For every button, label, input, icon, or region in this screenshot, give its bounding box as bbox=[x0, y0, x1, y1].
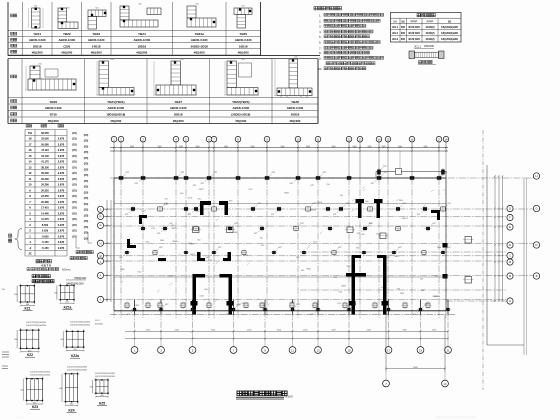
svg-text:(25): (25) bbox=[72, 165, 77, 169]
svg-text:4C20(2): 4C20(2) bbox=[425, 32, 434, 35]
svg-text:YBZ7: YBZ7 bbox=[174, 100, 182, 104]
svg-text:#8@200: #8@200 bbox=[91, 50, 102, 54]
svg-text:B: B bbox=[509, 274, 511, 278]
svg-text:#8@200: #8@200 bbox=[48, 119, 59, 123]
svg-text:KZ3: KZ3 bbox=[249, 189, 252, 191]
svg-text:18: 18 bbox=[29, 137, 32, 141]
svg-text:10C22/C8@100/200: 10C22/C8@100/200 bbox=[67, 370, 88, 372]
svg-text:2.970: 2.970 bbox=[58, 194, 65, 198]
svg-text:KZ2: KZ2 bbox=[278, 247, 281, 249]
svg-text:(25): (25) bbox=[72, 211, 77, 215]
svg-text:KZ2: KZ2 bbox=[435, 276, 438, 278]
svg-text:ABCD-0.030: ABCD-0.030 bbox=[287, 106, 304, 110]
svg-text:1.: 1. bbox=[319, 13, 322, 17]
svg-text:ABCD-0.030: ABCD-0.030 bbox=[235, 38, 252, 42]
svg-text:32.260: 32.260 bbox=[41, 178, 49, 181]
svg-text:(25): (25) bbox=[84, 144, 89, 148]
svg-text:14.440: 14.440 bbox=[41, 212, 49, 215]
svg-text:(25): (25) bbox=[84, 236, 89, 240]
svg-text:5.: 5. bbox=[319, 35, 322, 39]
svg-text:50.080: 50.080 bbox=[41, 143, 49, 146]
svg-text:KZ2: KZ2 bbox=[323, 172, 326, 174]
svg-text:2.970: 2.970 bbox=[58, 154, 65, 158]
svg-text:YBZ1: YBZ1 bbox=[33, 32, 41, 36]
svg-text:35.230: 35.230 bbox=[41, 172, 49, 175]
svg-text:(25): (25) bbox=[84, 179, 89, 183]
svg-text:250x500: 250x500 bbox=[424, 44, 435, 48]
svg-text:YBZ2: YBZ2 bbox=[63, 32, 71, 36]
svg-text:9.: 9. bbox=[319, 57, 322, 61]
svg-text:250: 250 bbox=[171, 225, 174, 227]
svg-text:(25): (25) bbox=[72, 137, 77, 141]
svg-text:10C22/C8@100/200: 10C22/C8@100/200 bbox=[34, 283, 55, 285]
band1 drawings bbox=[29, 4, 253, 30]
svg-text:5700: 5700 bbox=[277, 330, 281, 332]
svg-text:KZ4: KZ4 bbox=[68, 409, 74, 413]
svg-text:2.970: 2.970 bbox=[58, 160, 65, 164]
svg-text:44.140: 44.140 bbox=[41, 155, 49, 158]
svg-text:250: 250 bbox=[165, 198, 168, 200]
svg-text:250: 250 bbox=[260, 237, 263, 239]
shear wall core B bbox=[345, 199, 388, 315]
svg-text:KZ2a: KZ2a bbox=[71, 354, 79, 358]
svg-text:(25): (25) bbox=[84, 133, 89, 137]
svg-text:GBZ1: GBZ1 bbox=[306, 268, 311, 270]
svg-text:1800: 1800 bbox=[400, 293, 404, 295]
svg-text:600: 600 bbox=[301, 270, 304, 272]
svg-text:KZ2: KZ2 bbox=[313, 242, 316, 244]
svg-text:JC: JC bbox=[28, 252, 31, 256]
notes text block bbox=[314, 7, 384, 72]
svg-text:K: K bbox=[100, 274, 102, 278]
svg-text:2.970: 2.970 bbox=[58, 148, 65, 152]
svg-text:MWMH: MWMH bbox=[15, 416, 24, 420]
svg-text:YBZ3: YBZ3 bbox=[92, 32, 100, 36]
svg-text:KZ2: KZ2 bbox=[165, 304, 168, 306]
svg-text:KZ3: KZ3 bbox=[151, 228, 154, 230]
svg-text:KZ2: KZ2 bbox=[448, 203, 451, 205]
svg-text:18D18: 18D18 bbox=[138, 44, 147, 48]
svg-text:20D18: 20D18 bbox=[174, 113, 183, 117]
svg-text:4.: 4. bbox=[319, 30, 322, 34]
svg-text:10C22/C8@100/200: 10C22/C8@100/200 bbox=[26, 325, 47, 327]
svg-text:26.320: 26.320 bbox=[41, 189, 49, 192]
svg-text:KZ2: KZ2 bbox=[398, 247, 401, 249]
svg-text:#8@200: #8@200 bbox=[32, 50, 43, 54]
column micro labels bbox=[119, 166, 451, 317]
svg-text:4C20;3/20: 4C20;3/20 bbox=[408, 38, 420, 41]
drawing title bbox=[236, 391, 293, 399]
svg-text:KZ2: KZ2 bbox=[300, 223, 303, 225]
svg-text:5700: 5700 bbox=[402, 330, 406, 332]
svg-text:20D18: 20D18 bbox=[291, 113, 300, 117]
svg-text:S: S bbox=[100, 208, 102, 212]
svg-text:KZ1: KZ1 bbox=[371, 183, 374, 185]
svg-text:KZ2: KZ2 bbox=[369, 223, 372, 225]
svg-text:KZ2: KZ2 bbox=[432, 223, 435, 225]
svg-text:5700: 5700 bbox=[175, 330, 179, 332]
svg-text:10C22/C8@100/200: 10C22/C8@100/200 bbox=[95, 373, 116, 375]
svg-text:600: 600 bbox=[397, 288, 400, 290]
svg-text:GBZ2a: GBZ2a bbox=[172, 241, 179, 243]
svg-text:GBZ1: GBZ1 bbox=[394, 256, 399, 258]
svg-text:BB: BB bbox=[448, 20, 452, 23]
svg-text:P: P bbox=[100, 224, 102, 228]
JCL beam elevation detail bbox=[409, 44, 444, 65]
svg-text:KZ2: KZ2 bbox=[346, 203, 349, 205]
svg-text:600: 600 bbox=[365, 201, 368, 203]
svg-text:300x600: 300x600 bbox=[95, 324, 104, 326]
svg-text:JCL3: JCL3 bbox=[392, 38, 399, 41]
svg-text:3.: 3. bbox=[319, 25, 322, 29]
svg-text:#8@200: #8@200 bbox=[290, 119, 301, 123]
svg-text:10C22/C8@100/200: 10C22/C8@100/200 bbox=[67, 367, 88, 369]
svg-text:GBZ2a: GBZ2a bbox=[310, 210, 317, 212]
svg-text:1:100: 1:100 bbox=[286, 395, 293, 399]
svg-text:KZ1: KZ1 bbox=[386, 257, 389, 259]
svg-text:5700: 5700 bbox=[367, 330, 371, 332]
svg-text:ABCD-0.030: ABCD-0.030 bbox=[134, 38, 151, 42]
svg-text:ABCD-0.030: ABCD-0.030 bbox=[88, 38, 105, 42]
svg-text:250: 250 bbox=[327, 184, 330, 186]
svg-text:KZ2: KZ2 bbox=[201, 203, 204, 205]
svg-text:KZ1: KZ1 bbox=[254, 233, 257, 235]
svg-text:2.970: 2.970 bbox=[58, 234, 65, 238]
svg-text:2.970: 2.970 bbox=[58, 165, 65, 169]
svg-text:KZ2: KZ2 bbox=[126, 172, 129, 174]
svg-text:KZ2: KZ2 bbox=[376, 233, 379, 235]
svg-text:KZ3: KZ3 bbox=[209, 260, 212, 262]
svg-text:29.290: 29.290 bbox=[41, 184, 49, 187]
svg-text:KZ3: KZ3 bbox=[193, 185, 196, 187]
svg-text:2.970: 2.970 bbox=[58, 240, 65, 244]
svg-text:GBZ2a: GBZ2a bbox=[434, 296, 441, 298]
svg-text:KZ2: KZ2 bbox=[338, 303, 341, 305]
svg-text:#8@200: #8@200 bbox=[235, 119, 246, 123]
svg-text:250: 250 bbox=[420, 278, 423, 280]
svg-text:2.: 2. bbox=[319, 19, 322, 23]
svg-text:4C20(2): 4C20(2) bbox=[425, 38, 434, 41]
svg-text:KZ1: KZ1 bbox=[310, 314, 313, 316]
svg-text:KZ1: KZ1 bbox=[127, 314, 130, 316]
svg-text:600: 600 bbox=[180, 193, 183, 195]
svg-text:KZ1: KZ1 bbox=[296, 257, 299, 259]
svg-text:5700: 5700 bbox=[432, 330, 436, 332]
svg-text:(25): (25) bbox=[72, 160, 77, 164]
svg-text:4C20;3/20: 4C20;3/20 bbox=[408, 26, 420, 29]
svg-text:(25): (25) bbox=[72, 223, 77, 227]
svg-text:KZ1: KZ1 bbox=[119, 257, 122, 259]
svg-text:KZ2: KZ2 bbox=[27, 353, 33, 357]
svg-text:KZ1: KZ1 bbox=[188, 214, 191, 216]
svg-text:8.: 8. bbox=[319, 51, 322, 55]
svg-text:300: 300 bbox=[401, 38, 406, 41]
svg-text:(25): (25) bbox=[72, 142, 77, 146]
svg-text:KZ1: KZ1 bbox=[357, 233, 360, 235]
svg-text:KZ3: KZ3 bbox=[32, 405, 38, 409]
bottom right ramp bbox=[95, 130, 540, 390]
svg-text:YBZ4: YBZ4 bbox=[138, 32, 146, 36]
svg-text:KZ2: KZ2 bbox=[196, 211, 199, 213]
svg-text:#8@200: #8@200 bbox=[238, 50, 249, 54]
svg-text:5.530: 5.530 bbox=[42, 230, 49, 233]
svg-text:E: E bbox=[509, 225, 511, 229]
svg-text:-5.150: -5.150 bbox=[41, 241, 49, 244]
svg-text:23.350: 23.350 bbox=[41, 195, 49, 198]
svg-text:1800: 1800 bbox=[437, 247, 441, 249]
svg-text:12: 12 bbox=[29, 171, 32, 175]
svg-text:10C22/C8@100/200: 10C22/C8@100/200 bbox=[70, 325, 91, 327]
left edge legend marks bbox=[2, 352, 9, 369]
svg-text:10C22/C8@100/200: 10C22/C8@100/200 bbox=[30, 375, 51, 377]
svg-text:KZ2: KZ2 bbox=[238, 304, 241, 306]
svg-text:15: 15 bbox=[29, 154, 32, 158]
svg-text:B: B bbox=[536, 274, 538, 278]
svg-text:4C20(2): 4C20(2) bbox=[425, 26, 434, 29]
svg-text:5700: 5700 bbox=[247, 330, 251, 332]
svg-text:6.: 6. bbox=[319, 41, 322, 45]
svg-text:16D18: 16D18 bbox=[239, 44, 248, 48]
svg-text:10.: 10. bbox=[318, 67, 322, 71]
svg-text:G: G bbox=[509, 207, 511, 211]
svg-text:#8@200: #8@200 bbox=[61, 50, 72, 54]
svg-text:(25): (25) bbox=[84, 139, 89, 143]
svg-text:KZ1: KZ1 bbox=[290, 183, 293, 185]
svg-text:GJZ1: GJZ1 bbox=[188, 197, 193, 199]
svg-text:10C22/C8@100/200: 10C22/C8@100/200 bbox=[34, 280, 55, 282]
svg-text:ABCD-0.030: ABCD-0.030 bbox=[29, 38, 46, 42]
svg-text:16: 16 bbox=[29, 148, 32, 152]
svg-text:(20D22+2D18): (20D22+2D18) bbox=[231, 113, 250, 117]
svg-text:2.970: 2.970 bbox=[58, 171, 65, 175]
svg-text:10C22/C8@100/200: 10C22/C8@100/200 bbox=[66, 280, 87, 282]
svg-text:(25): (25) bbox=[72, 200, 77, 204]
svg-text:20D22+2D18: 20D22+2D18 bbox=[191, 44, 209, 48]
svg-text:(25): (25) bbox=[84, 202, 89, 206]
svg-text:(25): (25) bbox=[84, 219, 89, 223]
svg-text:(25): (25) bbox=[84, 173, 89, 177]
svg-text:YBZ5: YBZ5 bbox=[239, 32, 247, 36]
svg-text:20D18: 20D18 bbox=[33, 44, 42, 48]
svg-text:JCL1: JCL1 bbox=[392, 26, 399, 29]
svg-text:KZ2: KZ2 bbox=[165, 203, 168, 205]
svg-text:GJZ1: GJZ1 bbox=[187, 243, 192, 245]
foundation beam table bbox=[391, 13, 462, 43]
svg-text:2.970: 2.970 bbox=[58, 137, 65, 141]
svg-text:15: 15 bbox=[347, 348, 351, 352]
svg-text:GBZ1: GBZ1 bbox=[199, 189, 204, 191]
svg-text:KZ1: KZ1 bbox=[206, 257, 209, 259]
svg-text:D: D bbox=[535, 243, 537, 247]
svg-text:GBZ1: GBZ1 bbox=[284, 192, 289, 194]
svg-text:1800: 1800 bbox=[160, 240, 164, 242]
svg-text:2.970: 2.970 bbox=[58, 183, 65, 187]
storey height table bbox=[9, 125, 94, 286]
svg-text:2.970: 2.970 bbox=[58, 223, 65, 227]
svg-text:KZ2: KZ2 bbox=[297, 304, 300, 306]
svg-text:10C22/C8@100/200: 10C22/C8@100/200 bbox=[95, 376, 116, 378]
svg-text:5700: 5700 bbox=[146, 330, 150, 332]
svg-text:GBZ1: GBZ1 bbox=[135, 305, 140, 307]
svg-text:ABCD-0.030: ABCD-0.030 bbox=[191, 38, 208, 42]
svg-text:PH: PH bbox=[28, 131, 32, 135]
svg-text:5700: 5700 bbox=[331, 330, 335, 332]
svg-text:(25): (25) bbox=[84, 208, 89, 212]
svg-text:GBZ1: GBZ1 bbox=[168, 276, 173, 278]
svg-text:MMWMMHMWMMWHMMW: MMWMMHMWMMWHMMW bbox=[435, 416, 476, 420]
svg-text:53.050: 53.050 bbox=[41, 138, 49, 141]
svg-text:(25): (25) bbox=[72, 131, 77, 135]
svg-text:YDZ1(YBZ1): YDZ1(YBZ1) bbox=[107, 100, 124, 104]
svg-text:5700: 5700 bbox=[303, 330, 307, 332]
svg-text:(25): (25) bbox=[72, 234, 77, 238]
svg-text:GBZ2a: GBZ2a bbox=[171, 228, 178, 230]
svg-text:(25): (25) bbox=[72, 206, 77, 210]
svg-text:38.200: 38.200 bbox=[41, 166, 49, 169]
svg-text:250: 250 bbox=[340, 195, 343, 197]
svg-text:C8@200(2)x900: C8@200(2)x900 bbox=[441, 39, 459, 41]
svg-text:2.970: 2.970 bbox=[58, 217, 65, 221]
svg-text:C220: C220 bbox=[63, 44, 70, 48]
svg-text:21: 21 bbox=[446, 348, 450, 352]
svg-text:GBZ1: GBZ1 bbox=[120, 269, 125, 271]
svg-text:KZ1: KZ1 bbox=[271, 214, 274, 216]
svg-text:600: 600 bbox=[204, 289, 207, 291]
svg-text:KZ2: KZ2 bbox=[159, 247, 162, 249]
svg-text:#8@200: #8@200 bbox=[136, 50, 147, 54]
svg-text:(25): (25) bbox=[84, 150, 89, 154]
svg-text:(25): (25) bbox=[72, 229, 77, 233]
svg-text:10: 10 bbox=[29, 183, 32, 187]
svg-text:BB: BB bbox=[401, 20, 405, 23]
svg-text:17: 17 bbox=[29, 142, 32, 146]
svg-text:KZ2: KZ2 bbox=[403, 203, 406, 205]
svg-text:F: F bbox=[509, 216, 511, 220]
svg-text:KZ2: KZ2 bbox=[272, 172, 275, 174]
svg-text:GBZ2a: GBZ2a bbox=[317, 202, 324, 204]
svg-text:KZ2: KZ2 bbox=[311, 185, 314, 187]
svg-text:KZ1a: KZ1a bbox=[64, 306, 72, 310]
svg-text:KZ2: KZ2 bbox=[313, 203, 316, 205]
svg-text:#8@200: #8@200 bbox=[194, 50, 205, 54]
svg-text:2.970: 2.970 bbox=[58, 188, 65, 192]
svg-text:2.970: 2.970 bbox=[58, 142, 65, 146]
band1 outer border bbox=[7, 2, 9, 56]
svg-text:KZ1: KZ1 bbox=[435, 178, 438, 180]
svg-text:KZ2: KZ2 bbox=[234, 223, 237, 225]
svg-text:JCL1: JCL1 bbox=[414, 45, 421, 49]
svg-text:KZ2: KZ2 bbox=[384, 172, 387, 174]
svg-text:H: H bbox=[535, 174, 537, 178]
svg-text:YBZ4a: YBZ4a bbox=[195, 32, 205, 36]
svg-text:D718: D718 bbox=[50, 113, 57, 117]
svg-text:300: 300 bbox=[401, 32, 406, 35]
svg-text:2.970: 2.970 bbox=[58, 200, 65, 204]
svg-text:20.380: 20.380 bbox=[41, 201, 49, 204]
svg-text:KZ2: KZ2 bbox=[138, 271, 141, 273]
svg-text:2.970: 2.970 bbox=[58, 246, 65, 250]
svg-text:(25): (25) bbox=[72, 217, 77, 221]
svg-text:R: R bbox=[99, 215, 101, 219]
svg-text:G: G bbox=[535, 207, 537, 211]
svg-text:(25): (25) bbox=[84, 196, 89, 200]
svg-text:(25): (25) bbox=[84, 162, 89, 166]
svg-text:2#8@200/200: 2#8@200/200 bbox=[66, 282, 84, 286]
svg-text:KZ1: KZ1 bbox=[413, 314, 416, 316]
svg-text:YBZ6: YBZ6 bbox=[49, 100, 57, 104]
svg-text:#8@200: #8@200 bbox=[110, 119, 121, 123]
svg-text:GBZ1: GBZ1 bbox=[190, 254, 195, 256]
svg-text:KZ2: KZ2 bbox=[447, 247, 450, 249]
svg-text:(25): (25) bbox=[84, 213, 89, 217]
svg-text:KZ2: KZ2 bbox=[218, 247, 221, 249]
svg-text:10C22/C8@100/200: 10C22/C8@100/200 bbox=[30, 372, 51, 374]
plan column blobs bbox=[119, 170, 450, 312]
svg-text:(25): (25) bbox=[84, 156, 89, 160]
svg-text:GJZ1: GJZ1 bbox=[199, 296, 204, 298]
svg-text:(25): (25) bbox=[84, 190, 89, 194]
svg-text:KZ2: KZ2 bbox=[214, 172, 217, 174]
svg-text:(25): (25) bbox=[72, 194, 77, 198]
svg-text:JCL2: JCL2 bbox=[392, 32, 399, 35]
svg-text:KZ1: KZ1 bbox=[135, 183, 138, 185]
svg-text:KZ2: KZ2 bbox=[383, 166, 386, 168]
svg-text:4C20;3/20: 4C20;3/20 bbox=[408, 32, 420, 35]
svg-text:KZ2: KZ2 bbox=[261, 245, 264, 247]
svg-text:(25): (25) bbox=[84, 225, 89, 229]
svg-text:19: 19 bbox=[419, 348, 423, 352]
svg-text:2.970: 2.970 bbox=[58, 206, 65, 210]
svg-text:GBZ1: GBZ1 bbox=[341, 286, 346, 288]
svg-text:10C22/C8@100/200: 10C22/C8@100/200 bbox=[70, 322, 91, 324]
svg-text:KZ1: KZ1 bbox=[201, 183, 204, 185]
svg-text:KZ1: KZ1 bbox=[125, 214, 128, 216]
svg-text:2.970: 2.970 bbox=[58, 211, 65, 215]
band1 column-section table bbox=[8, 2, 320, 56]
svg-text:-0.030: -0.030 bbox=[41, 235, 49, 238]
svg-text:KZ1: KZ1 bbox=[333, 214, 336, 216]
svg-text:GBZ2a: GBZ2a bbox=[402, 218, 409, 220]
svg-text:17: 17 bbox=[387, 348, 391, 352]
svg-text:YBZ8: YBZ8 bbox=[291, 100, 299, 104]
svg-text:ABCD-0.030: ABCD-0.030 bbox=[45, 106, 62, 110]
svg-text:KZ3: KZ3 bbox=[229, 200, 232, 202]
svg-text:11.470: 11.470 bbox=[41, 218, 49, 221]
svg-text:1800: 1800 bbox=[399, 200, 403, 202]
svg-text:(25): (25) bbox=[84, 185, 89, 189]
svg-text:A: A bbox=[509, 299, 511, 303]
svg-text:5700: 5700 bbox=[211, 330, 215, 332]
svg-text:KZ2: KZ2 bbox=[258, 203, 261, 205]
svg-text:600: 600 bbox=[356, 248, 359, 250]
svg-text:GJZ1: GJZ1 bbox=[141, 211, 146, 213]
svg-text:-5.150: -5.150 bbox=[41, 247, 49, 250]
svg-text:KZ2: KZ2 bbox=[146, 241, 149, 243]
svg-text:(25): (25) bbox=[72, 154, 77, 158]
svg-text:13: 13 bbox=[29, 165, 32, 169]
bottom row KZ column squares bbox=[124, 302, 432, 310]
svg-text:KZ2: KZ2 bbox=[334, 277, 337, 279]
svg-text:(25): (25) bbox=[84, 231, 89, 235]
svg-text:KZ2: KZ2 bbox=[169, 223, 172, 225]
svg-text:14D18: 14D18 bbox=[92, 44, 101, 48]
svg-text:GBZ1: GBZ1 bbox=[234, 232, 239, 234]
svg-text:PPPP: PPPP bbox=[411, 20, 418, 23]
svg-text:KZ2: KZ2 bbox=[353, 304, 356, 306]
svg-text:(25): (25) bbox=[72, 171, 77, 175]
svg-text:PPPP: PPPP bbox=[427, 20, 434, 23]
band2 wall-section table bbox=[8, 59, 318, 124]
